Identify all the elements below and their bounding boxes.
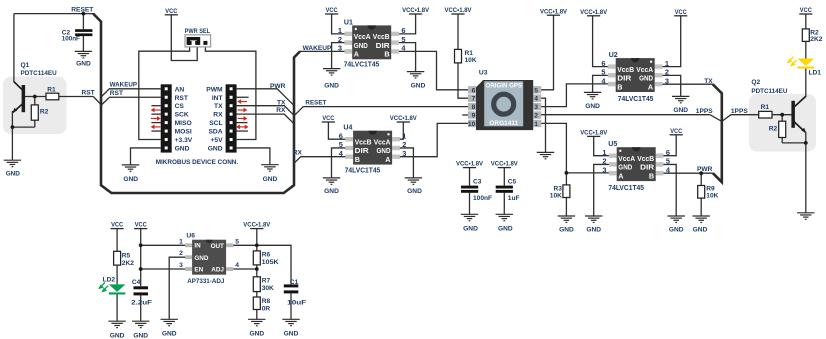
svg-text:GND: GND <box>284 330 299 337</box>
svg-text:GND: GND <box>162 330 177 337</box>
svg-text:VccA: VccA <box>636 65 653 74</box>
svg-text:VCC•1.8V: VCC•1.8V <box>491 161 519 168</box>
svg-text:+3.3V: +3.3V <box>175 137 193 144</box>
svg-text:6: 6 <box>339 131 343 140</box>
svg-text:WAKEUP: WAKEUP <box>303 45 332 52</box>
svg-text:CS: CS <box>175 103 185 110</box>
svg-text:1PPS: 1PPS <box>696 108 713 115</box>
svg-text:B: B <box>355 155 360 164</box>
svg-text:VCC: VCC <box>326 7 338 14</box>
svg-text:VccB: VccB <box>617 65 634 74</box>
svg-text:R2: R2 <box>769 125 778 132</box>
svg-text:RESET: RESET <box>305 99 326 106</box>
svg-text:GND: GND <box>498 225 513 232</box>
svg-text:RST: RST <box>110 90 123 97</box>
svg-text:TX: TX <box>277 99 286 106</box>
svg-text:R1: R1 <box>761 104 770 111</box>
svg-text:105K: 105K <box>262 259 279 266</box>
svg-text:INT: INT <box>212 95 224 102</box>
svg-text:ORIGIN GPS: ORIGIN GPS <box>486 83 523 90</box>
svg-text:30K: 30K <box>262 285 274 292</box>
svg-text:2: 2 <box>338 35 342 44</box>
svg-text:VCC: VCC <box>322 115 334 122</box>
svg-text:2K2: 2K2 <box>122 260 134 267</box>
svg-text:B: B <box>617 82 622 91</box>
svg-text:DIR: DIR <box>640 163 655 172</box>
svg-text:VCC•1.8V: VCC•1.8V <box>402 7 430 14</box>
svg-text:R2: R2 <box>40 108 49 115</box>
svg-text:3: 3 <box>534 104 538 111</box>
svg-text:C4: C4 <box>132 279 141 286</box>
svg-text:U3: U3 <box>479 70 488 77</box>
svg-text:GND: GND <box>324 188 339 195</box>
svg-text:GND: GND <box>6 170 20 177</box>
svg-text:SCL: SCL <box>209 120 222 127</box>
svg-text:10uF: 10uF <box>287 300 306 307</box>
svg-text:VCC: VCC <box>675 9 687 16</box>
svg-text:R5: R5 <box>122 252 131 259</box>
svg-text:6: 6 <box>666 148 670 157</box>
svg-text:5: 5 <box>401 35 405 44</box>
svg-text:B: B <box>384 50 389 59</box>
svg-text:A: A <box>648 82 654 91</box>
svg-text:GND: GND <box>208 145 223 152</box>
svg-text:VCC: VCC <box>135 222 147 229</box>
svg-text:MIKROBUS DEVICE CONN.: MIKROBUS DEVICE CONN. <box>156 159 239 166</box>
svg-text:PDTC114EU: PDTC114EU <box>21 70 57 77</box>
svg-text:GND: GND <box>585 103 600 110</box>
svg-text:1: 1 <box>402 131 406 140</box>
svg-text:DIR: DIR <box>617 74 632 83</box>
svg-text:U2: U2 <box>609 52 618 59</box>
svg-text:EN: EN <box>194 267 203 274</box>
svg-text:GND: GND <box>249 330 264 337</box>
svg-text:PWR: PWR <box>270 83 286 90</box>
svg-text:5: 5 <box>666 157 670 166</box>
svg-text:U4: U4 <box>343 125 352 132</box>
svg-text:U5: U5 <box>608 141 617 148</box>
svg-text:DIR: DIR <box>355 146 370 155</box>
svg-text:GND: GND <box>194 255 208 262</box>
svg-text:PDTC114EU: PDTC114EU <box>751 88 787 95</box>
svg-text:GND: GND <box>618 163 632 172</box>
svg-text:C5: C5 <box>508 179 517 186</box>
svg-text:PWM: PWM <box>206 86 223 93</box>
svg-text:74LVC1T45: 74LVC1T45 <box>618 94 654 103</box>
svg-text:74LVC1T45: 74LVC1T45 <box>345 166 381 175</box>
svg-text:C1: C1 <box>290 279 299 286</box>
svg-text:LD1: LD1 <box>809 69 822 76</box>
svg-text:5: 5 <box>601 68 605 77</box>
svg-text:AN: AN <box>175 86 185 93</box>
svg-text:R1: R1 <box>465 50 474 57</box>
svg-text:4: 4 <box>534 96 538 103</box>
svg-text:R9: R9 <box>706 186 715 193</box>
svg-text:GND: GND <box>354 41 368 50</box>
svg-text:10K: 10K <box>465 57 477 64</box>
svg-text:1PPS: 1PPS <box>731 108 748 115</box>
svg-text:VCC•1.8V: VCC•1.8V <box>540 9 568 16</box>
svg-text:SCK: SCK <box>175 112 189 119</box>
svg-text:3: 3 <box>402 149 406 158</box>
svg-text:6: 6 <box>601 59 605 68</box>
svg-text:3: 3 <box>179 262 183 269</box>
svg-text:R8: R8 <box>262 298 271 305</box>
svg-text:74LVC1T45: 74LVC1T45 <box>344 59 380 68</box>
svg-text:VCC•1.8V: VCC•1.8V <box>580 129 608 136</box>
svg-text:2K2: 2K2 <box>810 36 822 43</box>
svg-text:GND: GND <box>559 227 574 234</box>
svg-text:8: 8 <box>472 104 476 111</box>
svg-text:10K: 10K <box>706 193 718 200</box>
svg-text:U6: U6 <box>186 232 195 239</box>
svg-text:A: A <box>385 155 391 164</box>
svg-text:100nF: 100nF <box>62 36 80 43</box>
svg-text:TX: TX <box>214 103 223 110</box>
svg-text:WAKEUP: WAKEUP <box>110 81 138 88</box>
svg-text:VCC•1.8V: VCC•1.8V <box>445 7 473 14</box>
svg-text:4: 4 <box>235 262 239 269</box>
svg-text:Q1: Q1 <box>21 62 30 69</box>
svg-text:SDA: SDA <box>208 129 222 136</box>
svg-text:GND: GND <box>673 107 688 114</box>
svg-text:2: 2 <box>402 140 406 149</box>
svg-text:VCC•1.8V: VCC•1.8V <box>580 9 608 16</box>
svg-text:AP7331-ADJ: AP7331-ADJ <box>187 278 224 285</box>
svg-text:2: 2 <box>534 113 538 120</box>
svg-text:RST: RST <box>175 95 189 102</box>
svg-text:RST: RST <box>82 89 95 96</box>
svg-text:C3: C3 <box>473 179 482 186</box>
svg-text:A: A <box>354 50 360 59</box>
svg-text:DIR: DIR <box>376 41 391 50</box>
svg-text:GND: GND <box>411 82 426 89</box>
svg-text:7: 7 <box>472 96 476 103</box>
svg-text:1: 1 <box>179 238 183 245</box>
svg-text:GND: GND <box>377 146 391 155</box>
svg-text:TX: TX <box>704 78 713 85</box>
svg-text:GND: GND <box>175 145 190 152</box>
svg-text:2.2uF: 2.2uF <box>131 300 152 307</box>
svg-text:R6: R6 <box>262 252 271 259</box>
svg-text:+5V: +5V <box>211 137 224 144</box>
svg-text:PWR: PWR <box>697 166 713 173</box>
svg-text:R1: R1 <box>47 87 56 94</box>
svg-text:VCC: VCC <box>165 8 177 15</box>
svg-text:MOSI: MOSI <box>175 129 192 136</box>
svg-text:1: 1 <box>665 59 669 68</box>
svg-text:1: 1 <box>338 26 342 35</box>
svg-text:B: B <box>649 171 654 180</box>
svg-text:VCC•1.8V: VCC•1.8V <box>243 222 271 229</box>
svg-text:GND: GND <box>586 227 601 234</box>
svg-text:1: 1 <box>534 121 538 128</box>
svg-text:RX: RX <box>276 107 286 114</box>
svg-text:VCC•1.8V: VCC•1.8V <box>390 115 418 122</box>
svg-text:LD2: LD2 <box>103 276 116 283</box>
svg-text:U1: U1 <box>344 19 353 26</box>
svg-text:GND: GND <box>639 74 653 83</box>
svg-text:3: 3 <box>338 44 342 53</box>
svg-text:VccA: VccA <box>374 137 391 146</box>
svg-text:5: 5 <box>339 140 343 149</box>
svg-text:VccA: VccA <box>354 32 371 41</box>
svg-text:5: 5 <box>534 87 538 94</box>
svg-text:3: 3 <box>665 76 669 85</box>
svg-text:1: 1 <box>602 148 606 157</box>
svg-text:A: A <box>618 171 624 180</box>
svg-text:PWR SEL: PWR SEL <box>185 28 211 35</box>
svg-text:VccB: VccB <box>637 154 654 163</box>
svg-text:ORG1411: ORG1411 <box>489 120 519 127</box>
svg-text:GND: GND <box>669 227 684 234</box>
svg-text:GND: GND <box>263 176 278 183</box>
svg-text:ADJ: ADJ <box>211 267 224 274</box>
svg-text:5: 5 <box>235 238 239 245</box>
svg-text:3: 3 <box>602 165 606 174</box>
svg-text:VCC•1.8V: VCC•1.8V <box>456 161 484 168</box>
svg-text:GND: GND <box>110 332 125 339</box>
svg-text:VccB: VccB <box>373 32 390 41</box>
svg-text:RESET: RESET <box>71 7 93 14</box>
svg-text:VCC: VCC <box>111 222 123 229</box>
svg-text:74LVC1T45: 74LVC1T45 <box>608 183 644 192</box>
svg-text:9: 9 <box>472 113 476 120</box>
svg-text:Q2: Q2 <box>751 79 760 86</box>
svg-text:IN: IN <box>194 243 201 250</box>
svg-text:GND: GND <box>693 227 708 234</box>
svg-text:10K: 10K <box>550 193 562 200</box>
svg-text:GND: GND <box>76 61 91 68</box>
svg-text:R7: R7 <box>262 278 271 285</box>
svg-text:GND: GND <box>324 82 339 89</box>
svg-text:RX: RX <box>293 150 303 157</box>
svg-text:0R: 0R <box>262 305 271 312</box>
svg-text:VCC: VCC <box>800 7 812 14</box>
svg-text:RX: RX <box>213 112 223 119</box>
svg-text:GND: GND <box>407 188 422 195</box>
svg-text:2: 2 <box>665 68 669 77</box>
svg-text:GND: GND <box>123 176 138 183</box>
svg-text:6: 6 <box>472 87 476 94</box>
svg-text:2: 2 <box>602 157 606 166</box>
svg-text:10: 10 <box>468 121 476 128</box>
svg-text:2: 2 <box>179 250 183 257</box>
svg-text:GND: GND <box>463 225 478 232</box>
svg-text:VccA: VccA <box>618 154 635 163</box>
svg-text:VCC: VCC <box>670 128 682 135</box>
svg-text:R3: R3 <box>553 186 562 193</box>
svg-text:OUT: OUT <box>211 243 224 250</box>
svg-text:VccB: VccB <box>355 137 372 146</box>
svg-text:6: 6 <box>401 26 405 35</box>
svg-text:MISO: MISO <box>175 120 192 127</box>
svg-text:GND: GND <box>133 332 148 339</box>
svg-text:1uF: 1uF <box>508 195 520 202</box>
svg-text:100nF: 100nF <box>473 195 492 202</box>
